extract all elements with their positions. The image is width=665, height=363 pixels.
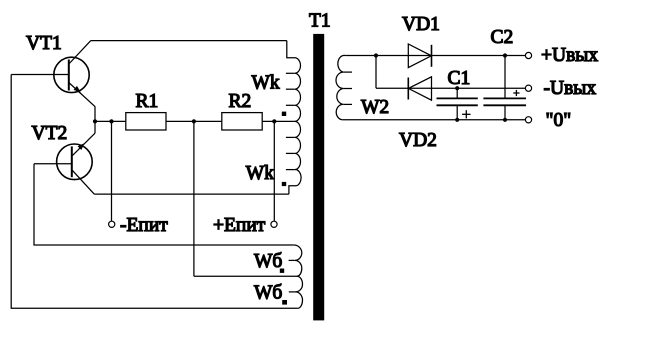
node +Epit tap [272,119,276,123]
wire Wб upper cusp tick [289,259,295,261]
svg-text:"0": "0" [546,110,572,131]
wire R1 to R2 [166,120,222,122]
svg-text:Wk: Wk [252,72,280,93]
svg-text:R1: R1 [136,91,159,112]
wire +Epit lead down [273,121,275,221]
node W2 top tap [374,53,378,57]
diode VD1 [408,44,431,68]
svg-text:R2: R2 [229,91,252,112]
svg-text:Wk: Wk [246,163,274,184]
terminal 0 [525,117,531,123]
wire Wб leads junction to x=194 vertical [194,275,297,277]
node C1 bottom [455,118,459,122]
wire emitters to R1 [95,120,126,122]
resistor R2 [222,113,262,130]
svg-text:W2: W2 [361,97,389,118]
capacitor C1 [437,88,478,120]
wire -Epit lead down [111,121,113,221]
terminal -Uvyh [525,85,531,91]
wire common emitter bar [94,106,96,133]
wire VT1 collector to top of upper Wk [91,40,287,42]
terminal -Epit [109,221,115,227]
wire left rail from VT1 base down and along bottom to lower Wб [11,75,297,309]
transformer T1 core [313,34,324,321]
capacitor C2 [483,56,526,120]
transistor VT2 [34,133,95,194]
winding Wб upper [294,245,302,276]
phase dot upper Wk [282,112,286,116]
svg-text:Wб: Wб [254,283,282,304]
winding Wб lower [296,276,303,308]
node emitter junction [93,119,97,123]
wire VT2 collector to bottom of lower Wk [94,193,289,195]
resistor R1 [126,113,166,130]
phase dot upper Wб [280,269,284,273]
winding Wk lower [286,121,301,194]
wire R1-R2 junction down to Wб lead [193,121,195,276]
svg-text:VT2: VT2 [32,123,68,144]
node C2 top [503,53,507,57]
wire W2 top to +U terminal [345,55,525,57]
winding Wk upper [286,41,301,122]
svg-text:C2: C2 [491,27,514,48]
phase dot lower Wk [282,182,286,186]
svg-text:-Епит: -Епит [120,215,168,236]
terminal +Uvyh [525,52,531,58]
svg-text:+Uвых: +Uвых [541,45,598,66]
node R1-R2 junction [192,119,196,123]
phase dot lower Wб [282,300,287,305]
svg-text:VT1: VT1 [26,33,62,54]
terminal +Epit [271,221,277,227]
svg-text:C1: C1 [448,68,471,89]
svg-text:T1: T1 [309,11,331,32]
svg-text:VD2: VD2 [399,130,437,151]
wire tap down to VD2 row [375,56,377,89]
wire Wб lower cusp tick [289,291,296,293]
wire R2 to winding center tap [262,120,295,122]
svg-text:Wб: Wб [254,251,282,272]
wire VD2 row to -U terminal [376,87,525,89]
node -Epit tap [109,119,113,123]
svg-text:VD1: VD1 [402,14,440,35]
wire 0 bus from W2 bottom to 0 terminal [343,119,526,121]
transistor VT1 [11,41,95,107]
wire VT2 base loop to upper Wб [34,164,294,245]
svg-text:+Епит: +Епит [213,215,266,236]
node C1 top [455,86,459,90]
svg-text:-Uвых: -Uвых [544,78,597,99]
diode VD2 [408,77,431,100]
node C2 bottom [503,118,507,122]
winding W2 [336,55,352,119]
